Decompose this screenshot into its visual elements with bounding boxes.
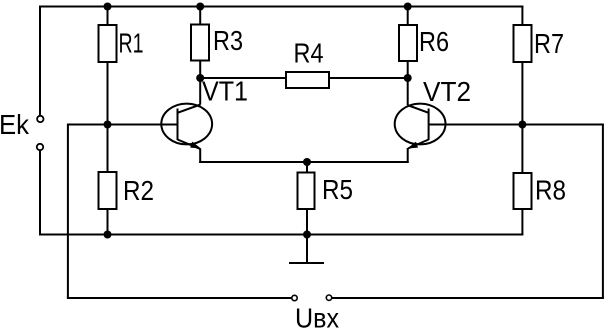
svg-text:Ek: Ek [0,109,30,140]
wire left rail upper (Ek top lead) [39,6,41,116]
node R6-R4-VT2 collector [404,74,412,82]
node R1-R2-VT1 base [104,121,112,129]
wire R3 / VT1 collector vertical [199,7,201,105]
resistor R7 [514,25,532,62]
svg-text:R5: R5 [322,174,353,205]
node top R6 [404,3,412,11]
wire VT1 base wire [68,124,178,126]
node R7-R8-VT2 base [518,121,526,129]
svg-text:R1: R1 [119,28,144,59]
svg-text:VT1: VT1 [202,76,248,107]
wire VT2 emitter vertical [407,148,409,163]
wire R7-R8 vertical line [521,7,523,235]
wire right rail [602,125,604,299]
wire emitter rail VT1-VT2 [199,161,409,163]
resistor R5 [298,173,315,210]
resistor R4 [286,72,329,88]
wire bottom rail left of Uvx [67,297,292,299]
svg-text:R4: R4 [294,38,324,69]
node emitter-R5 [303,158,311,166]
resistor R8 [514,173,532,209]
wire top rail [39,6,523,8]
wire lower rail [39,234,523,236]
wire R4 right segment [329,77,408,79]
wire left base drop to bottom rail [67,124,69,299]
wire R6 / VT2 collector vertical [407,7,409,106]
wire R1-R2 vertical line [107,7,109,235]
svg-text:VT2: VT2 [423,76,471,107]
svg-text:R3: R3 [213,25,243,56]
terminal Uvx left [292,295,297,300]
wire left rail lower (Ek bottom lead down to lower rail) [39,151,41,236]
wire VT2 base wire [429,124,604,126]
ground stem [306,235,308,264]
wire bottom rail right of Uvx [332,297,604,299]
transistor VT2 [395,104,446,149]
svg-text:R2: R2 [123,175,154,206]
wire VT1 emitter vertical [199,149,201,164]
node top R1 [104,3,112,11]
resistor R6 [399,25,417,61]
svg-text:R6: R6 [419,26,449,57]
terminal Uvx right [326,295,331,300]
svg-text:R8: R8 [535,175,566,206]
svg-text:Uвх: Uвх [295,302,339,332]
transistor VT1 [161,104,212,149]
node R3-R4-VT1 collector [196,74,204,82]
wire R5 vertical [306,162,308,235]
node lower rail R2 [104,231,112,239]
wire R4 horizontal (collector coupling) [200,77,286,79]
svg-text:R7: R7 [534,28,564,59]
node top R3 [196,3,204,11]
resistor R1 [99,25,117,62]
terminal Ek top [37,116,43,122]
node lower rail R5-ground [303,231,311,239]
ground bar [289,262,324,264]
resistor R3 [191,25,209,61]
terminal Ek bottom [37,144,43,150]
resistor R2 [99,172,117,209]
